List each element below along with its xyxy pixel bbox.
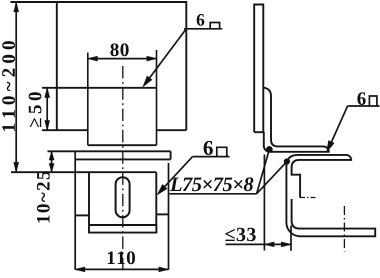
plate bottom edge left segment + ≥50 extension bbox=[42, 129, 88, 131]
centerline (front view) bbox=[122, 66, 124, 273]
left wing bottom edge bbox=[75, 214, 89, 216]
side view: mounting plate bbox=[254, 5, 263, 133]
flange right corner edge bbox=[170, 151, 172, 159]
face top edge B4 + dimension extension to left bbox=[11, 171, 156, 173]
angle-steel vertical leg, front view (column) with 80 extension lines bbox=[87, 53, 89, 146]
side view: Z-bracket upper part (top leg + vertical leg top, slot notch) bbox=[286, 155, 351, 214]
dimension 110 bbox=[75, 251, 168, 271]
face plate left edge bbox=[88, 172, 90, 225]
front view: mounting plate outline bbox=[57, 2, 187, 130]
weld label 6 (middle): leader to face/flange seam bbox=[158, 141, 230, 194]
upper flange front edge H4 + 10~25 top extension bbox=[48, 150, 171, 152]
weld dot (plate to angle) bbox=[266, 146, 273, 153]
110 left extension / Z-bracket left edge bbox=[74, 151, 76, 269]
face plate right edge bbox=[155, 172, 157, 225]
column bottom edge B1 bbox=[88, 144, 157, 146]
label L75×75×8 with two dotted leaders bbox=[170, 146, 291, 194]
right wing bottom edge bbox=[156, 213, 168, 215]
dimension 10~25 bbox=[37, 151, 54, 222]
Z-bracket top leg bottom edge B3 bbox=[75, 158, 170, 160]
dimension ≥50 bbox=[29, 88, 50, 130]
plate top extension line bbox=[11, 1, 57, 3]
slot (stadium) bbox=[116, 177, 130, 217]
dimension ≤33 bbox=[225, 155, 291, 251]
bottom strip bbox=[89, 225, 156, 233]
plate bottom edge right segment bbox=[157, 129, 187, 131]
weld label 6 (right): leader to flange end bbox=[327, 92, 380, 151]
column top edge H2 + ≥50 top extension bbox=[42, 87, 157, 89]
side view: Z-bracket lower part (vertical leg bottom + bottom leg) bbox=[286, 199, 375, 236]
dimension 110~200 bbox=[2, 2, 18, 172]
slot centre tick (side view) bbox=[300, 197, 317, 199]
dimension 80 bbox=[88, 43, 157, 61]
centerline through bottom leg (side view) bbox=[343, 206, 345, 252]
side view: upper angle steel (vertical leg + horizontal flange) bbox=[264, 88, 329, 152]
weld label 6 (top): leader to column/plate seam bbox=[143, 14, 222, 86]
110 right extension line bbox=[168, 163, 170, 270]
